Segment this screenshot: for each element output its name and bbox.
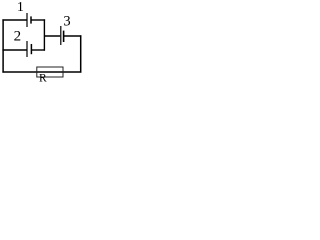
wire: capacitor 3 to right corner <box>64 35 82 37</box>
cell 2 short plate <box>30 44 32 54</box>
svg-text:R: R <box>39 73 47 85</box>
resistor R box <box>37 67 63 77</box>
wire: middle horizontal to capacitor 3 <box>44 35 60 37</box>
svg-text:2: 2 <box>14 29 22 45</box>
wire: cell 2 to junction <box>31 49 45 51</box>
svg-text:3: 3 <box>63 14 70 30</box>
capacitor 3 short plate <box>63 31 65 42</box>
cell 1 long plate <box>26 13 28 27</box>
wire: junction vertical <box>43 19 45 50</box>
cell 2 long plate <box>26 41 28 57</box>
wire: left vertical <box>2 19 4 72</box>
wire: top horizontal left of cell 1 <box>2 19 26 21</box>
wire: lower branch left <box>2 49 26 51</box>
wire: bottom horizontal <box>2 71 81 73</box>
capacitor 3 long plate <box>60 26 62 45</box>
wire: cell 1 to junction <box>31 19 45 21</box>
wire: right vertical <box>80 35 82 72</box>
svg-text:1: 1 <box>17 0 24 15</box>
cell 1 short plate <box>30 16 32 23</box>
